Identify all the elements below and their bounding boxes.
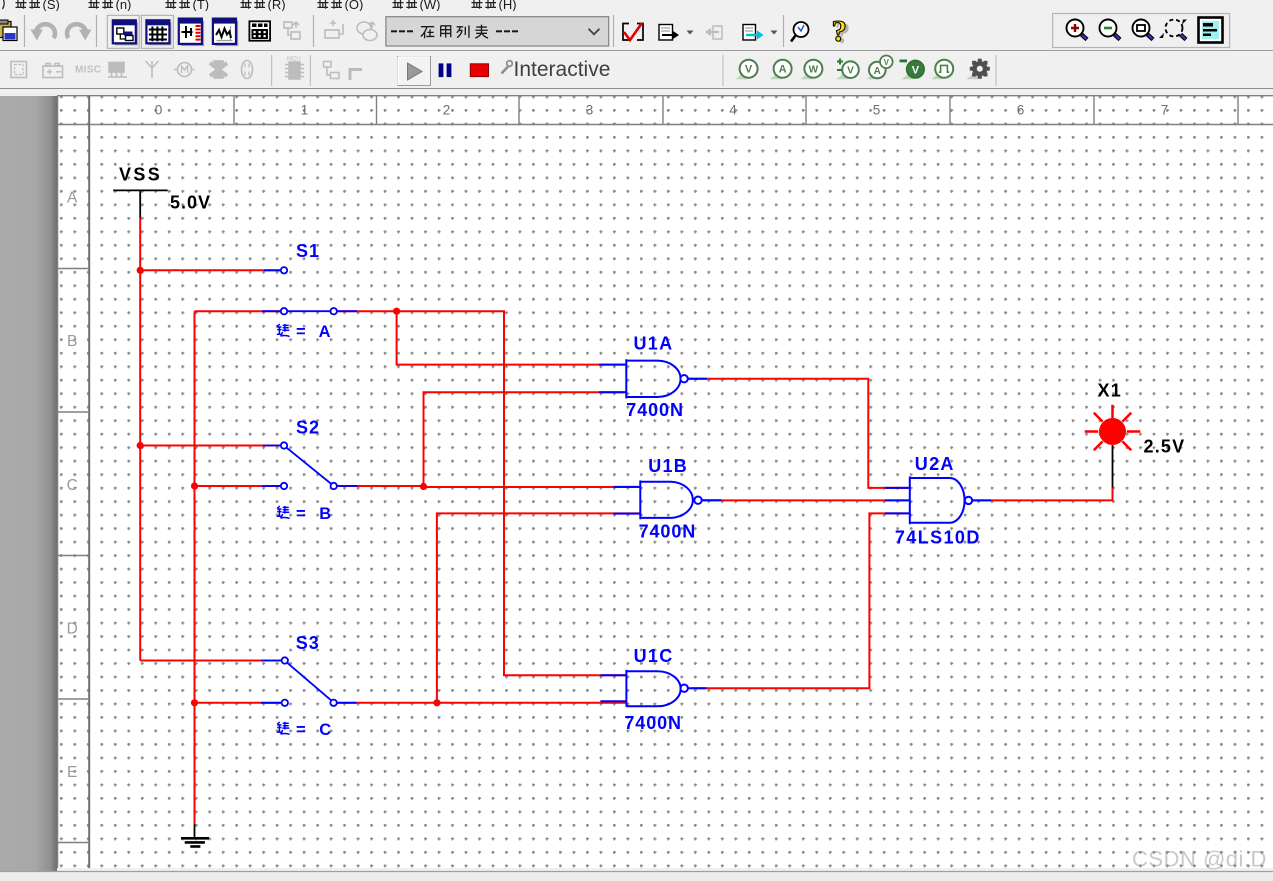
disabled misc-digital icon (210, 63, 227, 76)
label key = B (277, 505, 336, 523)
svg-text:V: V (912, 64, 920, 76)
svg-text:5.0V: 5.0V (170, 193, 211, 213)
svg-text:A: A (67, 189, 78, 206)
wire U2A output to lamp X1 (972, 488, 1112, 501)
find icon (791, 22, 809, 42)
svg-text:(R): (R) (268, 0, 286, 11)
disabled transfer icon (325, 20, 343, 38)
toggle button: hierarchy view (107, 15, 139, 48)
probe voltage (736, 60, 758, 80)
disabled hierarchy-new icon (324, 62, 340, 79)
simulate stop button (470, 64, 488, 77)
svg-text:7400N: 7400N (624, 713, 682, 733)
svg-text:= A: = A (296, 323, 335, 341)
junction ground-S2 (191, 482, 198, 489)
left gray panel (0, 96, 57, 871)
svg-text:74LS10D: 74LS10D (895, 528, 981, 548)
svg-text:V: V (884, 58, 890, 67)
disabled import icon (705, 26, 722, 39)
probe voltage and current (866, 56, 892, 80)
wire VSS to S3 top throw (140, 660, 281, 662)
switch S2 (262, 442, 357, 489)
paste icon (clipped at left) (0, 20, 17, 41)
zoom toolbar band (1053, 14, 1230, 48)
svg-text:U2A: U2A (915, 454, 955, 474)
disabled hierarchy icon (284, 22, 300, 39)
svg-text:7400N: 7400N (639, 522, 697, 542)
label key = C (277, 721, 336, 739)
disabled MCU chip icon (285, 57, 304, 80)
disabled transistor icon (109, 63, 124, 73)
wire VSS to S2 top throw (140, 445, 280, 447)
toggle button: netlist view (179, 19, 204, 46)
disabled back-annotate icon (357, 22, 377, 41)
svg-text:C: C (67, 477, 78, 494)
NAND gate U1B (614, 480, 722, 519)
svg-text:3: 3 (586, 103, 594, 118)
NAND gate U2A (3-input) (885, 477, 991, 525)
zoom out icon (1100, 20, 1121, 40)
label key = A (277, 323, 335, 341)
probe settings gear (966, 59, 989, 79)
probe power (800, 60, 822, 80)
svg-text:= C: = C (296, 721, 336, 739)
wire VSS to S1 top throw (140, 269, 280, 271)
wire net B branch to U1A input B (424, 392, 627, 486)
disabled place-component icon (11, 62, 27, 78)
junction VSS-S2 (137, 442, 144, 449)
simulate pause button (439, 63, 444, 77)
svg-text:A: A (874, 66, 881, 77)
svg-text:(H): (H) (499, 0, 517, 11)
svg-text:7: 7 (1161, 103, 1169, 118)
disabled motor icon (178, 63, 192, 77)
lamp X1 (1085, 405, 1141, 450)
disabled bus icon (350, 70, 362, 81)
full screen icon (1199, 18, 1223, 43)
switch S3 (261, 657, 356, 706)
NAND gate U1A (599, 359, 707, 398)
svg-text:2: 2 (443, 103, 451, 118)
pin X1 (black lead) (1112, 445, 1114, 488)
wire net B from S2 common to U1B input A (337, 486, 640, 487)
ERC check icon (623, 23, 643, 40)
svg-text:MISC: MISC (75, 65, 101, 76)
svg-text:S3: S3 (296, 633, 320, 653)
probe digital (931, 60, 953, 80)
junction net A (393, 308, 400, 315)
svg-text:5: 5 (873, 103, 881, 118)
junction net B (420, 483, 427, 490)
ground symbol (181, 824, 209, 847)
probe current (770, 60, 792, 80)
wire U1B output to U2A input 2 (703, 499, 910, 501)
svg-text:V: V (745, 64, 753, 76)
wire ground to S1 bottom throw (195, 310, 281, 312)
wrench glyph (502, 61, 513, 74)
svg-text:(O): (O) (345, 0, 364, 11)
svg-text:U1C: U1C (634, 646, 674, 666)
svg-text:U1B: U1B (648, 456, 688, 476)
wire ground rail (194, 311, 196, 824)
power VSS symbol (113, 190, 168, 217)
svg-text:U1A: U1A (634, 334, 674, 354)
svg-text:= B: = B (296, 505, 336, 523)
junction net C (433, 699, 440, 706)
wire U1C output to U2A input 3 (691, 513, 909, 688)
svg-text:VSS: VSS (119, 165, 162, 185)
toggle button: grapher view (213, 19, 238, 46)
disabled place-source icon (43, 66, 63, 78)
export netlist icon (659, 25, 679, 41)
wire VSS vertical rail (139, 218, 141, 661)
in-use list combo box (386, 17, 609, 46)
wire ground to S3 bottom throw (195, 702, 281, 704)
zoom area icon (1133, 20, 1154, 40)
wire net C branch to U1B input B (437, 513, 640, 702)
svg-text:?: ? (832, 13, 848, 48)
switch S1 (262, 267, 357, 314)
svg-text:B: B (67, 333, 77, 350)
svg-text:(T): (T) (193, 0, 210, 11)
svg-text:6: 6 (1017, 103, 1025, 118)
svg-text:4: 4 (729, 103, 737, 118)
undo icon (31, 24, 55, 40)
toggle button: spreadsheet view (141, 15, 173, 48)
svg-text:V: V (847, 66, 854, 77)
svg-text:Interactive: Interactive (514, 58, 611, 81)
svg-text:S1: S1 (296, 241, 320, 261)
svg-text:(S): (S) (43, 0, 60, 11)
svg-text:E: E (67, 764, 77, 781)
svg-text:1: 1 (301, 103, 309, 118)
svg-text:S2: S2 (296, 418, 320, 438)
svg-text:0: 0 (155, 103, 163, 118)
svg-text:2.5V: 2.5V (1144, 437, 1186, 457)
svg-text:X1: X1 (1098, 381, 1122, 401)
wire ground to S2 bottom throw (195, 485, 281, 487)
svg-text:(W): (W) (420, 0, 441, 11)
redo icon (67, 24, 91, 40)
svg-text:D: D (67, 620, 78, 637)
disabled analog icon (242, 61, 253, 79)
wire U1A output to U2A input 1 (688, 379, 910, 488)
probe voltage reference (900, 60, 925, 80)
NAND gate U1C (600, 670, 706, 707)
wire net C from S3 common to U1C input B (337, 702, 626, 704)
export to other icon (743, 25, 764, 41)
bottom scrollbar strip (0, 871, 1273, 881)
wire net A branch to U1A input A (397, 311, 627, 364)
junction VSS-S1 (137, 267, 144, 274)
svg-text:(n): (n) (116, 0, 132, 11)
junction ground-S3 (191, 699, 198, 706)
disabled antenna icon (146, 61, 159, 78)
wire net A from S1 common to U1C input A (337, 311, 626, 675)
svg-text:A: A (779, 64, 787, 76)
help icon (832, 13, 851, 50)
simulate run button (398, 57, 431, 86)
button: simulation settings grid (249, 21, 270, 40)
svg-text:W: W (809, 65, 819, 76)
zoom in icon (1067, 20, 1088, 40)
zoom fit icon (1159, 20, 1187, 40)
svg-text:7400N: 7400N (626, 400, 684, 420)
probe differential voltage (836, 59, 858, 80)
